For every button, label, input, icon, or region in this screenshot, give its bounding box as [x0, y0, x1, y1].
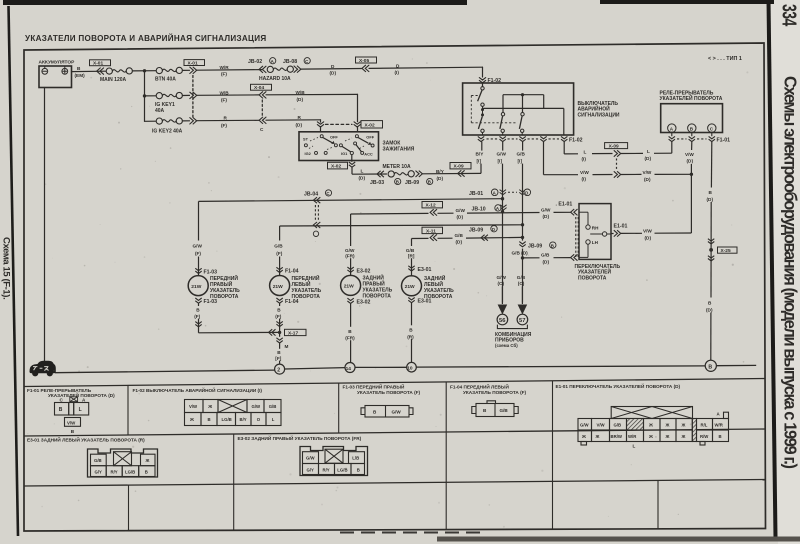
- svg-text:ПОВОРОТА: ПОВОРОТА: [578, 275, 607, 281]
- ground node 14: [345, 363, 355, 373]
- svg-text:B/Y: B/Y: [436, 169, 445, 174]
- combination meter bracket: [497, 325, 527, 329]
- svg-text:(R): (R): [407, 334, 414, 339]
- X-01 connector dotted body: [192, 76, 194, 118]
- svg-text:[R]: [R]: [408, 254, 415, 259]
- connector E1-01 dashed boundary: [575, 217, 577, 257]
- svg-text:(F): (F): [275, 314, 281, 319]
- svg-text:W/R: W/R: [628, 434, 637, 439]
- svg-text:B: B: [277, 350, 281, 355]
- svg-text:JB-04: JB-04: [304, 192, 318, 198]
- svg-text:Ж: Ж: [681, 422, 686, 427]
- svg-text:R/W: R/W: [700, 434, 709, 439]
- junction vertical wire: [144, 71, 146, 122]
- svg-text:JB-09: JB-09: [528, 244, 542, 250]
- svg-text:B: B: [719, 434, 722, 439]
- svg-text:УКАЗАТЕЛИ ПОВОРОТА И АВАРИЙНАЯ: УКАЗАТЕЛИ ПОВОРОТА И АВАРИЙНАЯ СИГНАЛИЗА…: [25, 34, 266, 43]
- svg-text:X-17: X-17: [288, 331, 298, 337]
- connector F1-02 (top): [479, 78, 485, 83]
- svg-text:ЛЕВЫЙ: ЛЕВЫЙ: [424, 280, 443, 288]
- svg-text:D: D: [525, 191, 528, 196]
- ignition switch box: [299, 132, 379, 161]
- svg-text:21W: 21W: [405, 284, 415, 290]
- rear right turn lamp column: [350, 214, 352, 246]
- connector label X-01 (second): [184, 60, 205, 67]
- svg-text:G/W: G/W: [541, 207, 551, 212]
- wire W/R (F) row: [197, 69, 262, 72]
- svg-text:JB-09: JB-09: [405, 180, 419, 186]
- svg-text:(EM): (EM): [75, 73, 86, 78]
- svg-text:10: 10: [407, 366, 413, 372]
- svg-text:X-04: X-04: [254, 85, 264, 91]
- svg-text:G/W: G/W: [345, 248, 355, 253]
- svg-text:[F]: [F]: [275, 356, 281, 361]
- svg-text:G/W: G/W: [497, 152, 507, 157]
- svg-text:Ж: Ж: [581, 434, 586, 439]
- turn signal switch E1-01: [579, 204, 611, 260]
- svg-text:(D): (D): [330, 71, 337, 76]
- svg-text:(FR): (FR): [345, 254, 355, 259]
- svg-text:Ж: Ж: [595, 434, 600, 439]
- fuse HAZARD 10A with connectors: [259, 66, 266, 72]
- svg-text:(D): (D): [437, 176, 444, 181]
- connector chevron X-09: [458, 170, 465, 176]
- svg-text:(D): (D): [707, 197, 714, 202]
- wire G/B row to switch LH: [521, 256, 524, 259]
- hazard warning switch box: [463, 83, 574, 135]
- connector F1-04 lower: [276, 298, 282, 303]
- svg-text:W/B: W/B: [296, 90, 306, 95]
- svg-text:X-09: X-09: [609, 144, 619, 150]
- svg-text:B: B: [145, 470, 148, 475]
- fuse BTN 40A: [156, 67, 182, 73]
- svg-text:14: 14: [346, 366, 352, 372]
- wire R (F) row: [197, 119, 259, 121]
- svg-text:УКАЗАТЕЛЬ ПОВОРОТА (F): УКАЗАТЕЛЬ ПОВОРОТА (F): [463, 390, 527, 395]
- connector chevron on B wire: [97, 68, 104, 74]
- svg-text:V/W: V/W: [67, 421, 76, 426]
- svg-text:G/W: G/W: [392, 410, 402, 415]
- svg-text:(D): (D): [297, 97, 304, 102]
- svg-text:G/B: G/B: [94, 458, 102, 463]
- svg-text:ЗАДНИЙ: ЗАДНИЙ: [424, 274, 446, 282]
- svg-text:G/W: G/W: [252, 404, 262, 409]
- svg-text:G/W: G/W: [497, 275, 507, 280]
- battery: [39, 60, 76, 88]
- junction block labels JB-02 A JB-08 C: [248, 58, 310, 66]
- svg-text:Схема 15 (F-1).: Схема 15 (F-1).: [1, 237, 12, 299]
- connector X-02 chevrons and dashed body: [317, 122, 323, 127]
- svg-text:HAZARD 10A: HAZARD 10A: [259, 76, 291, 82]
- svg-text:M: M: [285, 344, 289, 349]
- wire B/Y up to hazard switch: [480, 164, 482, 174]
- svg-text:(D): (D): [457, 215, 464, 220]
- connector chevrons X-01 row1: [190, 67, 197, 73]
- svg-text:(D): (D): [645, 235, 652, 240]
- svg-text:СИГНАЛИЗАЦИИ: СИГНАЛИЗАЦИИ: [578, 112, 620, 118]
- ground node B: [705, 360, 716, 371]
- svg-text:G/Y: G/Y: [307, 467, 315, 472]
- svg-text:LG/B: LG/B: [222, 417, 232, 422]
- svg-text:OFF: OFF: [330, 134, 338, 139]
- svg-text:G/B: G/B: [269, 404, 277, 409]
- svg-text:B: B: [357, 467, 360, 472]
- relay pin B: [688, 124, 696, 132]
- svg-text:G/W: G/W: [580, 422, 590, 427]
- svg-text:V/W: V/W: [580, 170, 589, 175]
- svg-text:G/Y: G/Y: [95, 470, 103, 475]
- svg-text:[I]: [I]: [477, 158, 482, 163]
- svg-text:IG2: IG2: [305, 151, 312, 156]
- svg-text:E3-02: E3-02: [357, 268, 371, 274]
- wire B (EM) battery to MAIN fuse: [72, 70, 107, 72]
- wire MAIN fuse to junction: [132, 70, 156, 72]
- relay pin A: [668, 124, 676, 132]
- svg-text:(D): (D): [296, 122, 303, 127]
- svg-text:(D): (D): [359, 176, 366, 181]
- svg-text:JB-08: JB-08: [283, 59, 297, 65]
- svg-text:E3-01: E3-01: [418, 267, 432, 273]
- svg-text:JB-01: JB-01: [469, 191, 483, 197]
- svg-text:< > . . . ТИП 1: < > . . . ТИП 1: [708, 56, 742, 62]
- svg-text:B: B: [396, 180, 399, 185]
- svg-text:F1-01: F1-01: [717, 138, 731, 144]
- wire BTN to W/R: [182, 69, 189, 71]
- svg-text:(D): (D): [644, 177, 651, 182]
- ground node 10: [407, 362, 417, 372]
- svg-text:X-05: X-05: [359, 58, 369, 64]
- svg-text:[I]: [I]: [518, 158, 523, 163]
- svg-text:ЛЕВЫЙ: ЛЕВЫЙ: [292, 280, 311, 288]
- svg-text:F1-03: F1-03: [204, 299, 218, 305]
- svg-text:ПЕРЕДНИЙ: ПЕРЕДНИЙ: [210, 274, 238, 282]
- svg-text:JB-03: JB-03: [370, 180, 384, 186]
- svg-text:B: B: [208, 417, 211, 422]
- svg-text:LH: LH: [592, 240, 599, 245]
- wire D (D): [301, 68, 362, 71]
- svg-text:L/B: L/B: [352, 456, 359, 461]
- svg-text:40A: 40A: [155, 108, 165, 114]
- svg-text:R/L: R/L: [701, 422, 708, 427]
- svg-text:LG/B: LG/B: [125, 470, 135, 475]
- svg-text:JB-10: JB-10: [472, 206, 486, 212]
- connector E3-01 lower: [408, 298, 414, 303]
- svg-text:(F): (F): [276, 251, 282, 256]
- svg-text:УКАЗАТЕЛЬ ПОВОРОТА (F): УКАЗАТЕЛЬ ПОВОРОТА (F): [357, 390, 421, 395]
- svg-text:(D): (D): [456, 240, 463, 245]
- svg-text:(схема Сб): (схема Сб): [495, 343, 518, 348]
- svg-text:(F): (F): [194, 314, 200, 319]
- rear left turn lamp column: [411, 239, 413, 247]
- wire G/B column from hazard switch: [522, 142, 524, 151]
- svg-text:(I): (I): [582, 177, 587, 182]
- svg-text:F1-04: F1-04: [285, 299, 299, 305]
- svg-text:B/Y: B/Y: [240, 417, 247, 422]
- svg-text:G/B: G/B: [455, 233, 464, 238]
- svg-text:ЗАЖИГАНИЯ: ЗАЖИГАНИЯ: [383, 147, 415, 153]
- svg-text:F1-02 ВЫКЛЮЧАТЕЛЬ АВАРИЙНОЙ С: F1-02 ВЫКЛЮЧАТЕЛЬ АВАРИЙНОЙ СИГНАЛИЗАЦИИ…: [133, 386, 263, 393]
- svg-text:E3-01 ЗАДНИЙ ЛЕВЫЙ УКАЗАТЕЛЬ: E3-01 ЗАДНИЙ ЛЕВЫЙ УКАЗАТЕЛЬ ПОВОРОТА (R…: [27, 436, 145, 443]
- junction node: [143, 69, 146, 72]
- svg-text:X-01: X-01: [93, 61, 103, 67]
- svg-text:R/Y: R/Y: [111, 470, 118, 475]
- lamp front right 21W: [188, 276, 208, 296]
- svg-text:W/R: W/R: [715, 422, 724, 427]
- wire W/B (F) row: [197, 94, 259, 96]
- connector JB-09 B on G/B column: [519, 242, 525, 247]
- arrow terminal 56: [498, 305, 508, 315]
- connector X-09 dashed body: [616, 159, 618, 170]
- front left turn lamp column: [279, 226, 281, 241]
- svg-text:21W: 21W: [344, 284, 354, 290]
- connector chevron X-05: [362, 65, 369, 71]
- svg-text:L: L: [361, 169, 364, 174]
- body ground car symbol: [30, 361, 56, 374]
- svg-text:E1-01: E1-01: [614, 223, 628, 229]
- svg-text:E3-02: E3-02: [357, 299, 371, 305]
- arrow terminal 57: [518, 305, 528, 315]
- svg-text:METER 10A: METER 10A: [383, 164, 411, 170]
- svg-text:B: B: [59, 407, 63, 413]
- svg-text:21W: 21W: [191, 284, 201, 290]
- svg-text:(F): (F): [221, 71, 227, 76]
- svg-text:АВАРИЙНОЙ: АВАРИЙНОЙ: [578, 105, 611, 113]
- svg-text:V/W: V/W: [189, 404, 198, 409]
- svg-text:[I]: [I]: [498, 158, 503, 163]
- wire B/Y (D) to X-09: [422, 172, 481, 174]
- connector F1-03 upper: [195, 268, 201, 273]
- connector E3-01 upper: [408, 266, 414, 271]
- connector label X-02 (lower): [328, 162, 348, 169]
- svg-text:BTN 40A: BTN 40A: [155, 77, 176, 83]
- svg-text:334: 334: [778, 4, 800, 27]
- connector chevron row3: [259, 117, 266, 123]
- svg-text:Ж: Ж: [189, 417, 194, 422]
- svg-text:Ж: Ж: [681, 434, 686, 439]
- svg-text:УКАЗАТЕЛЕЙ: УКАЗАТЕЛЕЙ: [578, 268, 611, 276]
- wire front-left lamp row: [280, 225, 523, 226]
- svg-text:OFF: OFF: [366, 134, 374, 139]
- lamp rear left 21W: [402, 276, 422, 296]
- svg-text:F1-03 ПЕРЕДНИЙ ПРАВЫЙ: F1-03 ПЕРЕДНИЙ ПРАВЫЙ: [343, 383, 406, 390]
- svg-text:V/W: V/W: [643, 170, 652, 175]
- svg-text:IG KEY2 40A: IG KEY2 40A: [152, 129, 183, 135]
- svg-text:B: B: [551, 243, 554, 248]
- connector table grid: [24, 379, 765, 531]
- hazard switch connector row F1-02: [478, 136, 568, 141]
- ignition output wire to X-02: [351, 155, 353, 162]
- lamp rear right 21W: [341, 275, 361, 295]
- METER 10A fuse row: [352, 173, 387, 175]
- svg-text:B: B: [428, 180, 431, 185]
- svg-text:E3-02 ЗАДНИЙ ПРАВЫЙ УКАЗАТЕЛЬ: E3-02 ЗАДНИЙ ПРАВЫЙ УКАЗАТЕЛЬ ПОВОРОТА (…: [238, 434, 362, 441]
- svg-text:X-12: X-12: [426, 203, 436, 209]
- wire R (D) to ignition: [266, 119, 321, 121]
- svg-text:56: 56: [499, 318, 506, 324]
- svg-text:G/B (D): G/B (D): [512, 251, 529, 256]
- svg-text:(FR): (FR): [345, 336, 355, 341]
- svg-text:УКАЗАТЕЛЕЙ ПОВОРОТА: УКАЗАТЕЛЕЙ ПОВОРОТА: [660, 94, 723, 102]
- svg-text:21W: 21W: [273, 284, 283, 290]
- svg-text:B: B: [277, 307, 281, 312]
- connector F1-04 upper: [276, 267, 282, 272]
- front right turn lamp column: [198, 201, 200, 240]
- svg-text:L: L: [633, 444, 636, 449]
- svg-text:2: 2: [277, 368, 280, 374]
- svg-text:G/W: G/W: [456, 208, 466, 213]
- wire G/W column from hazard switch: [502, 142, 504, 151]
- lamp front left 21W: [270, 276, 290, 296]
- svg-text:L: L: [272, 417, 275, 422]
- svg-text:G/W: G/W: [306, 456, 316, 461]
- svg-text:E3-01: E3-01: [418, 299, 432, 305]
- wire V/W output to relay pin B column: [543, 142, 545, 175]
- wire D (I) to hazard switch: [369, 67, 483, 68]
- svg-text:G/W: G/W: [193, 243, 203, 248]
- svg-text:(D): (D): [687, 159, 694, 164]
- svg-text:E1-01 ПЕРЕКЛЮЧАТЕЛЬ УКАЗАТЕЛЕ: E1-01 ПЕРЕКЛЮЧАТЕЛЬ УКАЗАТЕЛЕЙ ПОВОРОТА …: [556, 382, 681, 389]
- ground node 2: [275, 364, 285, 374]
- svg-text:IG1: IG1: [341, 151, 348, 156]
- svg-text:Ж: Ж: [648, 422, 653, 427]
- svg-text:(F): (F): [195, 251, 201, 256]
- svg-text:RH: RH: [592, 225, 599, 230]
- connector E3-02 lower: [347, 298, 353, 303]
- svg-text:(D): (D): [543, 214, 550, 219]
- junction block JB-01 A D row: [469, 189, 531, 197]
- svg-text:B: B: [348, 329, 352, 334]
- svg-text:D: D: [492, 227, 495, 232]
- svg-text:ACC: ACC: [364, 152, 373, 157]
- ignition contacts and arms: [304, 135, 374, 155]
- connector label X-04: [251, 84, 272, 91]
- svg-text:V/W: V/W: [643, 228, 652, 233]
- svg-text:B/Y: B/Y: [476, 152, 485, 157]
- svg-text:Схемы электрооборудования (мод: Схемы электрооборудования (модели выпуск…: [780, 76, 800, 468]
- svg-text:ПРАВЫЙ: ПРАВЫЙ: [363, 280, 386, 288]
- svg-text:G/B: G/B: [500, 408, 509, 413]
- svg-text:F1-04 ПЕРЕДНИЙ ЛЕВЫЙ: F1-04 ПЕРЕДНИЙ ЛЕВЫЙ: [450, 383, 509, 390]
- svg-text:Ж: Ж: [207, 404, 212, 409]
- wire drop into hazard switch: [482, 67, 484, 77]
- svg-text:X-02: X-02: [365, 123, 375, 129]
- wire L output to relay pin A: [563, 142, 565, 154]
- wire battery negative to ground car: [44, 88, 46, 362]
- wire G/W row rear-right-lamp to switch RH: [351, 212, 429, 215]
- junction block labels JB-03 B JB-09 B: [370, 178, 433, 186]
- svg-text:MAIN 120A: MAIN 120A: [100, 77, 127, 83]
- svg-text:Ж: Ж: [145, 458, 150, 463]
- svg-text:X-02: X-02: [331, 164, 341, 170]
- svg-text:B: B: [708, 364, 712, 370]
- svg-text:ПЕРЕДНИЙ: ПЕРЕДНИЙ: [292, 274, 320, 282]
- svg-text:L: L: [584, 149, 587, 154]
- svg-text:Ж: Ж: [648, 434, 653, 439]
- svg-text:X-01: X-01: [188, 60, 198, 66]
- svg-text:F1-03: F1-03: [204, 269, 218, 275]
- svg-text:G/B: G/B: [517, 275, 526, 280]
- svg-text:АККУМУЛЯТОР: АККУМУЛЯТОР: [39, 60, 76, 66]
- svg-text:W/B: W/B: [220, 90, 230, 95]
- svg-text:G/B: G/B: [406, 248, 415, 253]
- svg-text:ST: ST: [303, 136, 309, 141]
- svg-text:G/B: G/B: [541, 253, 550, 258]
- svg-text:57: 57: [519, 318, 525, 324]
- svg-text:(C): (C): [518, 281, 525, 286]
- svg-text:ПРАВЫЙ: ПРАВЫЙ: [210, 280, 233, 288]
- fuse IG KEY2 40A row: [145, 120, 157, 122]
- svg-text:X-09: X-09: [454, 164, 464, 170]
- svg-text:(I): (I): [582, 156, 587, 161]
- hazard switch internals: [478, 87, 564, 135]
- svg-text:JB-02: JB-02: [248, 59, 262, 65]
- wire X-17 row: [199, 331, 280, 333]
- connector E3-02 upper: [347, 267, 353, 272]
- svg-text:V/W: V/W: [685, 152, 694, 157]
- svg-text:. E1-01: . E1-01: [556, 202, 573, 208]
- svg-text:V/W: V/W: [597, 422, 606, 427]
- svg-text:W/R: W/R: [220, 65, 230, 70]
- wire W/B (D) to ignition: [266, 93, 358, 95]
- svg-text:G/B: G/B: [517, 152, 526, 157]
- svg-text:JB-09: JB-09: [469, 228, 483, 234]
- svg-text:Ж: Ж: [665, 422, 670, 427]
- relay connector row F1-01: [669, 133, 715, 142]
- connector chevron X-04: [259, 92, 266, 98]
- svg-text:BR/W: BR/W: [611, 434, 623, 439]
- wire relay pin C ground column: [710, 142, 712, 188]
- connector F1-03 lower: [195, 298, 201, 303]
- svg-text:L: L: [647, 149, 650, 154]
- svg-text:ЗАДНИЙ: ЗАДНИЙ: [363, 274, 385, 282]
- relay pin C: [708, 124, 716, 132]
- ground bus wire: [55, 365, 756, 372]
- fuse MAIN 120A: [106, 68, 132, 74]
- svg-text:G/B: G/B: [274, 243, 283, 248]
- svg-text:R/Y: R/Y: [323, 467, 330, 472]
- connector label X-05: [356, 57, 377, 64]
- svg-text:(C): (C): [498, 281, 505, 286]
- svg-text:(F): (F): [221, 123, 227, 128]
- svg-text:(D): (D): [543, 259, 550, 264]
- wire G/B row rear-left-lamp to G/B column: [412, 237, 429, 239]
- svg-text:(D): (D): [706, 307, 713, 312]
- wire G/W feed line to front right lamp: [199, 199, 503, 202]
- connector label X-09: [450, 163, 471, 170]
- svg-text:G/B: G/B: [614, 422, 622, 427]
- svg-text:X-25: X-25: [721, 248, 731, 254]
- svg-text:L: L: [79, 407, 82, 413]
- wire relay pin B down to switch: [691, 142, 693, 150]
- connector label X-01: [90, 60, 111, 67]
- svg-text:X-11: X-11: [426, 228, 436, 234]
- svg-text:F1-02: F1-02: [569, 138, 583, 144]
- connector X-25: [708, 239, 714, 244]
- fuse IG KEY1 40A row: [145, 95, 157, 97]
- svg-text:(I): (I): [395, 70, 400, 75]
- svg-text:(D): (D): [645, 156, 652, 161]
- svg-text:(F): (F): [221, 97, 227, 102]
- svg-text:Ж: Ж: [665, 434, 670, 439]
- switch internals RH LH: [579, 212, 611, 257]
